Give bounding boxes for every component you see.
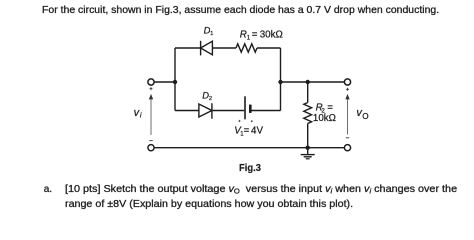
svg-text:1: 1 bbox=[247, 34, 251, 41]
svg-text:2: 2 bbox=[209, 96, 212, 102]
svg-text:i: i bbox=[140, 112, 142, 119]
svg-text:4V: 4V bbox=[251, 126, 263, 137]
svg-text:=: = bbox=[244, 126, 250, 137]
svg-text:1: 1 bbox=[210, 31, 213, 37]
svg-text:O: O bbox=[362, 112, 368, 121]
svg-text:30kΩ: 30kΩ bbox=[260, 29, 283, 40]
svg-text:10kΩ: 10kΩ bbox=[313, 113, 336, 124]
svg-text:=: = bbox=[252, 29, 258, 40]
